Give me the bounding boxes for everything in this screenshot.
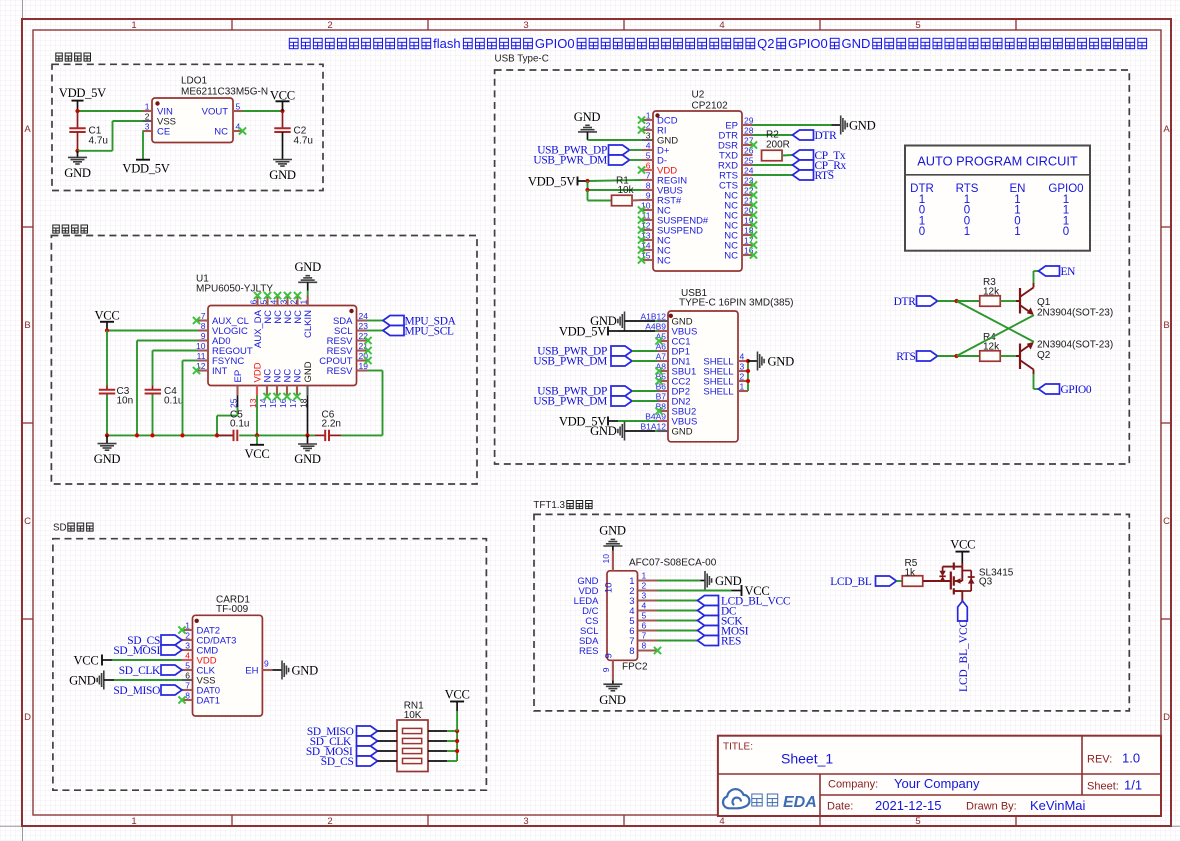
svg-text:7: 7: [642, 631, 647, 641]
svg-text:4: 4: [646, 141, 651, 151]
ground GND above U2 pin3: [574, 110, 601, 140]
svg-text:A4B9: A4B9: [645, 322, 666, 332]
junction RN1 row3: [455, 749, 459, 753]
wire pin2 to VCC: [658, 590, 732, 592]
svg-text:USB Type-C: USB Type-C: [495, 54, 549, 65]
capacitor C4 0.1u: [145, 386, 184, 407]
ground GND at EH pin: [272, 661, 318, 680]
svg-text:5: 5: [185, 661, 190, 671]
U1 labels: [196, 274, 273, 295]
resistor R1 10k: [612, 175, 635, 205]
svg-text:VCC: VCC: [74, 653, 99, 667]
svg-text:25: 25: [744, 156, 754, 166]
svg-text:RES: RES: [721, 636, 741, 648]
svg-text:A1B12: A1B12: [640, 312, 666, 322]
wire VDD_5V to VBUS: [618, 330, 655, 332]
ground GND below C2: [269, 160, 296, 182]
wire DTR to Q2 emitter (diagonal): [957, 301, 1034, 342]
net flag SD_CS to CD/DAT3: [127, 635, 182, 647]
wire rail down to VBUS: [587, 181, 589, 190]
net flag SD_CLK (RN1): [310, 736, 378, 748]
svg-text:TF-009: TF-009: [216, 604, 249, 615]
no-connect X marks U2 right: [750, 141, 757, 258]
svg-text:GND: GND: [715, 574, 742, 588]
wire RTS to Q1 emitter (diagonal): [957, 315, 1034, 356]
module label: SD memory card (CJK+latin): [53, 523, 93, 534]
wire pin1 to GND: [658, 580, 701, 582]
title block Sheet cell: [1087, 778, 1142, 793]
svg-text:12k: 12k: [983, 287, 1000, 298]
junction at VDD_5V/C1: [75, 109, 79, 113]
svg-text:8: 8: [646, 181, 651, 191]
svg-text:EN: EN: [1061, 266, 1076, 278]
svg-text:SD_MISO: SD_MISO: [113, 685, 160, 697]
wire C1 bottom to VSS pin: [78, 121, 143, 151]
svg-text:1k: 1k: [905, 568, 917, 579]
wires flags to RN1: [378, 731, 398, 761]
svg-text:AUTO PROGRAM CIRCUIT: AUTO PROGRAM CIRCUIT: [917, 154, 1078, 169]
svg-text:SD_CLK: SD_CLK: [119, 665, 161, 677]
svg-text:Q2: Q2: [757, 36, 774, 51]
RN1 labels: [404, 701, 424, 722]
svg-text:D: D: [1163, 712, 1170, 723]
wire VCC to VDD pin: [112, 659, 182, 661]
svg-text:A: A: [1163, 124, 1170, 135]
svg-text:4: 4: [719, 20, 724, 31]
gnd bus horizontal: [107, 434, 383, 436]
svg-text:9: 9: [201, 331, 206, 341]
junction VCC rail: [105, 328, 109, 332]
svg-text:CP2102: CP2102: [692, 101, 729, 112]
svg-text:VOUT: VOUT: [202, 106, 229, 117]
capacitor C6 2.2n in bus: [322, 410, 341, 442]
svg-text:B1A12: B1A12: [640, 422, 666, 432]
svg-text:FPC2: FPC2: [622, 662, 648, 673]
svg-text:RESV: RESV: [327, 366, 354, 377]
ground GND at SHELL: [748, 352, 794, 371]
wire to VBUS pin: [588, 189, 643, 191]
svg-text:A: A: [24, 124, 31, 135]
svg-text:4: 4: [236, 122, 241, 132]
junction RN1 row2: [455, 739, 459, 743]
svg-text:1.0: 1.0: [1122, 751, 1140, 766]
wire GND to VSS pin: [114, 679, 182, 681]
wire R4 to Q2 base: [1001, 355, 1017, 357]
svg-text:Company:: Company:: [828, 779, 878, 791]
svg-text:flash: flash: [433, 36, 460, 51]
svg-text:1: 1: [185, 621, 190, 631]
wire pin5 to SCK flag: [658, 620, 698, 622]
wire VDD_5V to lower VBUS: [618, 420, 658, 422]
ground GND at USB1 bottom: [590, 422, 655, 441]
svg-text:USB_PWR_DM: USB_PWR_DM: [533, 356, 607, 368]
net flag SD_MOSI (RN1): [306, 746, 378, 758]
svg-text:3: 3: [523, 816, 528, 827]
net flag USB_PWR_DM to DN1: [533, 356, 657, 368]
svg-text:Your Company: Your Company: [894, 776, 980, 791]
svg-text:1/1: 1/1: [1124, 778, 1142, 793]
svg-text:VCC: VCC: [245, 447, 270, 461]
ground GND above FPC2: [599, 523, 626, 550]
svg-text:3: 3: [740, 362, 745, 372]
net flag DTR (input): [894, 296, 938, 308]
svg-text:Q2: Q2: [1037, 350, 1051, 361]
svg-text:USB_PWR_DM: USB_PWR_DM: [533, 396, 607, 408]
wire SCL to flag: [367, 330, 383, 332]
title block borders: [718, 736, 1161, 816]
svg-text:GND: GND: [768, 354, 795, 368]
svg-text:NC: NC: [214, 126, 228, 137]
svg-text:NC: NC: [293, 369, 304, 383]
svg-text:CLKIN: CLKIN: [303, 310, 314, 338]
svg-text:24: 24: [744, 166, 754, 176]
power port VDD_5V (below CE): [122, 160, 169, 176]
connector USB1 TYPE-C 16PIN: [640, 311, 748, 442]
svg-text:7: 7: [185, 681, 190, 691]
TFT module dashed border: [534, 514, 1129, 711]
svg-text:5: 5: [236, 102, 241, 112]
ground GND at FPC pin1: [701, 571, 742, 590]
svg-text:1: 1: [131, 816, 136, 827]
svg-text:B: B: [1163, 320, 1169, 331]
svg-text:7: 7: [201, 311, 206, 321]
IC U1 MPU6050-YJLTY: [196, 296, 368, 409]
net flag SD_MOSI to CMD: [113, 645, 182, 657]
svg-text:GND: GND: [64, 166, 91, 180]
svg-text:9: 9: [601, 667, 611, 672]
svg-text:EH: EH: [245, 665, 258, 676]
svg-text:GPIO0: GPIO0: [535, 36, 575, 51]
svg-text:1: 1: [299, 300, 309, 305]
net flag DTR: [793, 130, 838, 142]
power port VCC (MPU): [95, 309, 120, 331]
svg-text:GND: GND: [294, 452, 321, 466]
ground GND at USB1 top: [590, 312, 655, 331]
net flag CP_Rx: [793, 160, 847, 172]
svg-text:3: 3: [646, 131, 651, 141]
svg-text:4: 4: [719, 816, 724, 827]
wire VOUT to VCC: [243, 110, 283, 112]
title block TITLE row: [723, 742, 833, 767]
svg-text:5: 5: [915, 20, 920, 31]
svg-text:4: 4: [642, 601, 647, 611]
net flag GPIO0: [1039, 384, 1092, 396]
svg-text:2021-12-15: 2021-12-15: [875, 798, 942, 813]
FPC2 labels: [622, 558, 717, 673]
svg-text:NC: NC: [657, 255, 671, 266]
svg-text:D: D: [24, 712, 31, 723]
svg-text:10: 10: [604, 583, 615, 594]
IC U2 CP2102: [641, 111, 754, 272]
net flag LCD_BL: [830, 576, 896, 588]
module label: power module (CJK): [56, 53, 91, 61]
transistor Q2 2N3904: [1016, 340, 1113, 375]
svg-text:2: 2: [646, 121, 651, 131]
net flag DC: [698, 606, 737, 618]
wire EP down with jog: [217, 396, 238, 436]
svg-text:VDD_5V: VDD_5V: [59, 86, 106, 100]
wire R2 to flag: [782, 154, 793, 157]
wire R3 to Q1 base: [1001, 300, 1017, 302]
svg-text:12k: 12k: [983, 342, 1000, 353]
capacitor C1 4.7u: [69, 111, 108, 151]
svg-text:Sheet:: Sheet:: [1087, 781, 1119, 793]
USB1 labels: [679, 288, 793, 309]
svg-text:8: 8: [642, 641, 647, 651]
CARD1 labels: [216, 595, 250, 616]
power port VDD_5V to VBUS top: [559, 324, 618, 338]
svg-text:EDA: EDA: [783, 794, 817, 811]
junction SHELL 3: [746, 369, 750, 373]
U2 labels: [692, 90, 729, 112]
wire CE to VDD_5V port: [142, 131, 145, 160]
regulator LDO1 ME6211C33M5G-N: [143, 98, 243, 143]
net flag MOSI: [698, 626, 749, 638]
resistor R4 12k: [980, 332, 1001, 361]
svg-text:B7: B7: [656, 392, 667, 402]
power port VCC (Q3): [950, 538, 975, 563]
junction bus at VCC/C3: [105, 433, 109, 437]
svg-text:VDD_5V: VDD_5V: [122, 162, 169, 176]
net flag LCD_BL_VCC: [698, 596, 791, 608]
svg-text:9: 9: [646, 191, 651, 201]
svg-text:VDD_5V: VDD_5V: [559, 324, 606, 338]
svg-text:VCC: VCC: [445, 687, 470, 701]
svg-text:TFT1.3: TFT1.3: [533, 500, 565, 511]
svg-text:11: 11: [197, 351, 206, 361]
net flag SD_MISO to DAT0: [113, 685, 182, 697]
wire RXD to flag: [753, 164, 793, 166]
net flag MPU_SCL: [383, 326, 454, 338]
svg-text:GND: GND: [303, 361, 314, 382]
wire VCC to VLOGIC: [107, 330, 198, 332]
net flag SD_CLK to CLK: [119, 665, 182, 677]
svg-text:10k: 10k: [618, 185, 635, 196]
svg-text:2N3904(SOT-23): 2N3904(SOT-23): [1037, 340, 1113, 351]
net flag MPU_SDA: [383, 316, 457, 328]
svg-text:GPIO0: GPIO0: [1061, 384, 1092, 396]
svg-text:GND: GND: [292, 663, 319, 677]
svg-text:1: 1: [131, 20, 136, 31]
svg-text:3: 3: [145, 122, 150, 132]
power port VDD_5V to REGIN: [528, 174, 588, 188]
capacitor C5 0.1u in bus: [217, 410, 249, 442]
svg-text:RES: RES: [579, 646, 599, 657]
net flag RTS (input): [896, 351, 937, 363]
title block REV cell: [1087, 751, 1140, 766]
net flag USB_PWR_DM to DN2: [533, 396, 657, 408]
net flag RTS: [793, 170, 834, 182]
power module dashed border: [52, 64, 323, 190]
svg-text:1: 1: [642, 571, 647, 581]
module label: 6-axis module (CJK): [53, 225, 88, 233]
wire VDD_5V to REGIN: [588, 180, 643, 181]
svg-text:LDO1: LDO1: [181, 76, 208, 87]
svg-text:24: 24: [359, 311, 369, 321]
svg-text:GND: GND: [69, 673, 96, 687]
svg-text:GPIO0: GPIO0: [788, 36, 828, 51]
wire GND to B1A12: [655, 430, 658, 432]
net flag USB_PWR_DM to D-: [533, 155, 642, 167]
junction at VCC/C2: [280, 109, 284, 113]
net flag USB_PWR_DP to D+: [537, 145, 642, 157]
wire RESV pin19 to bus: [367, 371, 383, 436]
svg-text:28: 28: [744, 126, 754, 136]
svg-text:TYPE-C 16PIN 3MD(385): TYPE-C 16PIN 3MD(385): [679, 298, 793, 309]
svg-text:0: 0: [919, 226, 925, 238]
svg-text:NC: NC: [724, 250, 738, 261]
svg-text:1: 1: [145, 102, 150, 112]
svg-text:10: 10: [601, 554, 611, 564]
svg-text:4: 4: [740, 352, 745, 362]
wire VDD pin 13 down: [256, 396, 258, 436]
power port VCC at FPC pin2: [732, 584, 770, 598]
svg-text:SD_MOSI: SD_MOSI: [113, 645, 160, 657]
wire VDD_5V to VIN: [78, 110, 143, 112]
svg-text:RTS: RTS: [896, 351, 915, 363]
svg-text:DTR: DTR: [815, 130, 838, 142]
EasyEDA logo cloud: [723, 789, 749, 808]
power port VCC (LDO out): [270, 89, 295, 111]
svg-text:2.2n: 2.2n: [322, 419, 341, 430]
svg-text:GND: GND: [672, 426, 693, 437]
title block Date row: [827, 798, 1086, 813]
svg-text:9: 9: [604, 653, 615, 658]
junction SHELL top: [746, 359, 750, 363]
svg-text:1: 1: [646, 111, 651, 121]
wire EP to GND: [753, 124, 832, 126]
svg-text:ME6211C33M5G-N: ME6211C33M5G-N: [181, 87, 268, 98]
power port VCC to VDD (SD): [74, 653, 113, 667]
svg-text:GND: GND: [849, 118, 876, 132]
wire FSYNC to gnd bus: [183, 361, 198, 436]
junction REGIN rail: [585, 179, 589, 183]
svg-text:RTS: RTS: [815, 170, 834, 182]
wire pin4 to DC flag: [658, 610, 698, 612]
svg-text:23: 23: [359, 321, 369, 331]
annotation text (blue): [289, 36, 1146, 51]
svg-text:LCD_BL_VCC: LCD_BL_VCC: [958, 620, 970, 692]
svg-text:5: 5: [642, 611, 647, 621]
svg-text:CE: CE: [157, 126, 170, 137]
svg-text:Q3: Q3: [979, 577, 993, 588]
svg-text:B: B: [24, 320, 30, 331]
wire AD0 to gnd bus: [137, 341, 198, 436]
no-connect X marks USB1: [655, 337, 662, 414]
ground GND below pin18: [294, 435, 321, 466]
no-connect X marks U2 left: [638, 116, 645, 263]
svg-text:TITLE:: TITLE:: [723, 742, 753, 753]
svg-text:LCD_BL: LCD_BL: [830, 576, 872, 588]
svg-text:2: 2: [327, 20, 332, 31]
wire DTR to R3: [938, 300, 980, 302]
svg-text:KeVinMai: KeVinMai: [1030, 798, 1086, 813]
svg-text:1: 1: [740, 382, 745, 392]
svg-text:REV:: REV:: [1087, 754, 1112, 766]
svg-text:GND: GND: [574, 110, 601, 124]
svg-text:5: 5: [646, 151, 651, 161]
svg-text:5: 5: [915, 816, 920, 827]
wire VCC rail down with C3: [106, 331, 108, 436]
svg-text:3: 3: [642, 591, 647, 601]
svg-text:3: 3: [279, 300, 289, 305]
junction RTS: [954, 354, 958, 358]
svg-text:4.7u: 4.7u: [294, 136, 313, 147]
wire GND to CLKIN: [307, 291, 309, 296]
svg-text:GND: GND: [599, 693, 626, 707]
no-connect X at FPC pin8: [654, 647, 661, 654]
svg-text:Date:: Date:: [827, 801, 853, 813]
junction VBUS rail: [585, 188, 589, 192]
title block Company row: [828, 776, 980, 791]
wire pin6 to MOSI flag: [658, 630, 698, 632]
svg-text:2: 2: [185, 631, 190, 641]
svg-text:USB_PWR_DM: USB_PWR_DM: [533, 155, 607, 167]
junction bus at FSYNC: [180, 433, 184, 437]
ground GND at EP: [832, 116, 876, 135]
ground GND below FPC2: [599, 680, 626, 707]
svg-text:6: 6: [249, 300, 259, 305]
svg-text:3: 3: [523, 20, 528, 31]
junction SHELL 2: [746, 379, 750, 383]
resistor R3 12k: [980, 277, 1001, 306]
power port VCC (RN1): [445, 687, 470, 731]
capacitor C3 10n: [99, 386, 133, 407]
ground GND to VSS (SD): [69, 671, 114, 690]
svg-text:7: 7: [646, 171, 651, 181]
net flag SCK: [698, 616, 744, 628]
svg-text:VDD_5V: VDD_5V: [528, 174, 575, 188]
EasyEDA logo text: [752, 794, 817, 811]
svg-text:4: 4: [185, 651, 190, 661]
net flag EN: [1039, 266, 1076, 278]
LDO U1 labels: [181, 76, 268, 98]
svg-text:SD_CS: SD_CS: [321, 756, 354, 768]
junction bus at AD0: [135, 433, 139, 437]
net flag USB_PWR_DP to DP1: [537, 346, 657, 358]
svg-text:8: 8: [201, 321, 206, 331]
wire GND pin 18 down: [307, 396, 309, 436]
svg-text:MPU_SCL: MPU_SCL: [405, 326, 455, 338]
svg-text:0.1u: 0.1u: [230, 419, 249, 430]
svg-text:DAT1: DAT1: [197, 695, 221, 706]
wire LCD_BL to R5: [897, 580, 903, 582]
svg-text:MPU6050-YJLTY: MPU6050-YJLTY: [196, 284, 273, 295]
transistor Q1 2N3904: [1016, 283, 1113, 319]
svg-text:10: 10: [196, 341, 206, 351]
svg-text:2N3904(SOT-23): 2N3904(SOT-23): [1037, 308, 1113, 319]
svg-text:5: 5: [259, 300, 269, 305]
junction DTR: [954, 299, 958, 303]
no-connect X marks TF-009: [178, 626, 185, 703]
net flag USB_PWR_DP to DP2: [537, 386, 657, 398]
svg-text:6: 6: [642, 621, 647, 631]
power port VDD_5V (top left): [59, 86, 106, 111]
ground GND below bus left: [94, 435, 121, 466]
svg-text:VCC: VCC: [95, 309, 120, 323]
svg-text:C: C: [24, 516, 31, 527]
wire GND to U2 GND pin: [588, 139, 643, 141]
wire SHELL bus: [747, 361, 749, 391]
svg-text:INT: INT: [212, 366, 228, 377]
svg-text:EP: EP: [233, 370, 244, 383]
svg-text:GND: GND: [295, 260, 322, 274]
net flag LCD_BL_VCC (vertical): [958, 601, 970, 692]
wire R1 to RST#: [632, 199, 642, 202]
wire Q1 collector to EN flag: [1034, 271, 1039, 283]
wire rail down to RST row: [588, 190, 612, 201]
svg-text:2: 2: [289, 300, 299, 305]
